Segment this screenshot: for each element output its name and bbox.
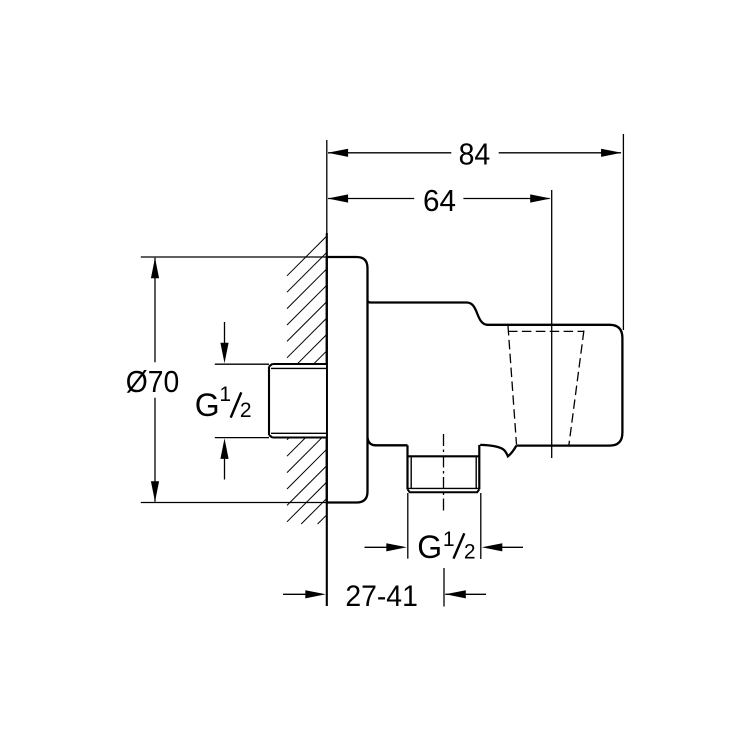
dimension diam70 line <box>154 258 156 502</box>
svg-text:84: 84 <box>459 137 491 172</box>
holder cone hidden left edge <box>508 326 517 445</box>
arrowhead dim84 left <box>328 149 349 157</box>
holder block outline <box>487 325 623 446</box>
svg-text:G: G <box>195 387 220 423</box>
arrowhead 27-41 right <box>445 590 466 598</box>
extension line dim64 right / holder centre axis <box>551 190 553 458</box>
arrowhead diam70 bottom <box>151 481 159 502</box>
flange plate <box>327 257 368 503</box>
inlet nipple outline <box>269 364 327 438</box>
drip hook <box>480 445 516 456</box>
outlet centre line (dash-dot) <box>443 434 445 514</box>
extension line diam70 bottom <box>141 502 327 504</box>
dimension G1/2 bottom arrow tails <box>365 546 524 548</box>
extension line 27-41 right <box>443 568 445 607</box>
svg-text:1: 1 <box>219 383 231 406</box>
arrowhead dim64 left <box>328 194 349 202</box>
holder cone hidden rim <box>508 330 584 332</box>
svg-text:Ø70: Ø70 <box>126 364 180 399</box>
svg-text:64: 64 <box>423 183 456 218</box>
arrowhead diam70 top <box>151 258 159 279</box>
svg-text:G: G <box>417 529 442 565</box>
inlet nipple G1/2 (left, white-out over hatch) <box>269 364 326 438</box>
holder cone hidden right edge <box>569 331 584 446</box>
outlet nipple thread minor lines <box>409 457 479 488</box>
inlet nipple thread minor lines <box>271 368 327 433</box>
arrowhead G1/2 left upper <box>220 343 228 364</box>
svg-text:2: 2 <box>240 399 252 422</box>
body top edge with step <box>368 301 488 325</box>
wall hatching <box>287 236 327 524</box>
outlet nipple G1/2 (bottom) <box>408 445 480 489</box>
arrowhead G1/2 bottom left <box>386 543 407 551</box>
dimension 84 line <box>328 152 621 154</box>
arrowhead G1/2 left lower <box>220 438 228 459</box>
svg-text:27-41: 27-41 <box>345 580 418 613</box>
svg-text:1: 1 <box>443 528 455 551</box>
arrowhead dim64 right <box>530 194 551 202</box>
dimension 64 line <box>328 198 550 200</box>
arrowhead dim84 right <box>601 149 622 157</box>
body bottom edge <box>368 438 408 446</box>
outlet nipple chamfer bottom <box>408 489 480 492</box>
dimension G1/2 left arrows tails <box>224 322 226 480</box>
svg-text:2: 2 <box>464 541 476 564</box>
extension lines G1/2 left <box>215 364 269 437</box>
extension line diam70 top <box>141 256 327 258</box>
arrowhead 27-41 left <box>305 590 326 598</box>
arrowhead G1/2 bottom right <box>482 543 503 551</box>
dimension 27-41 line and tails <box>283 593 486 595</box>
wall line <box>326 140 328 233</box>
extension lines G1/2 bottom <box>408 493 481 559</box>
extension line dim84 right <box>622 134 624 330</box>
arrowheads <box>151 149 622 599</box>
